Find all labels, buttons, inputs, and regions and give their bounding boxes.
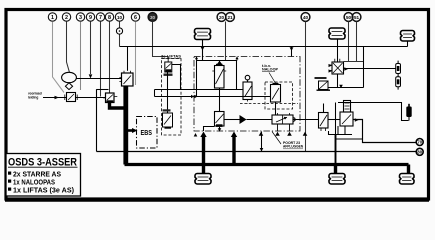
leader 2 [67, 22, 70, 73]
svg-text:6: 6 [134, 15, 137, 21]
NALOOP valve [271, 83, 281, 102]
wire suspension down to y88 [363, 47, 365, 88]
svg-text:AFPLUGGEN: AFPLUGGEN [283, 145, 304, 149]
coupling head ellipse [62, 72, 77, 82]
junction arrow cluster right [344, 67, 348, 71]
wire V1b bottom to drop1 [204, 127, 215, 132]
wire mid horizontal b [155, 96, 271, 98]
svg-text:3: 3 [79, 15, 82, 21]
junction arrow drop 1 [200, 132, 206, 138]
leader 8 [109, 22, 111, 93]
leader 7 [100, 22, 102, 97]
svg-text:20: 20 [219, 15, 225, 20]
svg-text:70: 70 [417, 140, 422, 145]
svg-text:21: 21 [227, 15, 233, 20]
park shunt valve [119, 71, 133, 86]
test coupling X-box [319, 81, 329, 90]
svg-text:40: 40 [303, 15, 309, 20]
leader 40 [305, 22, 307, 152]
wire port23 drop [261, 132, 263, 152]
thick drop 2 [232, 136, 235, 165]
lift control enclosure [336, 103, 409, 140]
drain diamond [65, 83, 72, 90]
wire lift valve to middle bellows [329, 126, 353, 135]
main brake delivery thick line [125, 163, 409, 166]
svg-text:8: 8 [108, 15, 111, 21]
svg-text:30: 30 [150, 15, 156, 20]
wire enclosure top to V1 [219, 61, 221, 66]
callout circles row [48, 13, 361, 22]
wire valve A right port [172, 65, 181, 90]
supply arrow wire [43, 96, 67, 100]
legend box [6, 154, 81, 197]
lift valve R with solenoid [340, 101, 353, 127]
svg-text:51: 51 [354, 15, 360, 20]
thick arrow into EBS [127, 128, 138, 133]
air bellows top middle [329, 28, 345, 39]
wire V1 down [219, 88, 221, 112]
NALOOP leader [269, 73, 276, 85]
port circle 80 [416, 148, 423, 155]
silencer [406, 104, 411, 121]
svg-text:10: 10 [117, 15, 123, 20]
wires below directional valve [278, 124, 290, 132]
leader 9 arrowhead [89, 74, 93, 78]
leader 9 [90, 22, 92, 75]
leader 3 [80, 22, 82, 91]
leader 50 [344, 22, 364, 62]
svg-text:NALOOP: NALOOP [262, 68, 279, 72]
wire mid horizontal a [155, 89, 244, 91]
air bellows top right [401, 30, 415, 41]
directional valve horizontal [272, 113, 295, 124]
wire cluster to test points [344, 68, 396, 70]
thick stub to middle bellows [334, 164, 337, 174]
POORT leader [272, 132, 281, 145]
svg-text:leiding: leiding [28, 96, 38, 100]
bellows bottom left [195, 174, 211, 185]
charging valve [103, 93, 117, 103]
wire filter to charging valve [76, 97, 106, 99]
wire valve L top stub [323, 104, 325, 113]
junction arrow into enclosure [191, 95, 198, 98]
valve B tiny label [163, 109, 171, 111]
wire pilot drop to knob valve [291, 47, 293, 57]
wire bellows top center [202, 40, 204, 61]
junction arrow drop 2 [231, 132, 237, 138]
wire V2 bottom dashed [247, 100, 249, 104]
wire cluster to xbox line [337, 74, 339, 88]
thick drop to left bellows [202, 136, 205, 175]
dashed pilot line [240, 103, 298, 105]
system dash-dot enclosure [194, 57, 300, 132]
lift valve L [319, 113, 329, 132]
check valve junction [224, 115, 272, 124]
svg-text:9: 9 [89, 15, 92, 21]
X-box tiny label [315, 77, 327, 79]
wire bellows top right [407, 41, 409, 47]
X-box base bar [317, 89, 331, 91]
air bellows top center [195, 29, 211, 40]
wire from suspension line to park valve [127, 47, 129, 71]
NALOOP dashed box [265, 82, 293, 109]
wire y88 [328, 87, 364, 89]
3e LIFTAS dashed box [162, 59, 182, 136]
valve A tiny label [164, 74, 173, 76]
leader 10 [119, 22, 121, 47]
junction arrow LIFTAS port [194, 133, 198, 137]
wire valve A to valve B [167, 72, 169, 113]
thick main pipe down [123, 86, 128, 165]
thick pipe charging valve down right [110, 103, 127, 109]
wire bellows top middle down to cluster [337, 39, 339, 62]
svg-text:OSDS 3-ASSER: OSDS 3-ASSER [8, 157, 77, 169]
bellows bottom right [400, 174, 415, 185]
line filter [65, 93, 77, 102]
leader lines [53, 22, 364, 152]
lift solenoid valve A [165, 62, 172, 72]
leader 1 [53, 22, 65, 93]
bellows bottom middle [329, 174, 345, 185]
svg-text:80: 80 [417, 150, 422, 155]
POORT label [283, 141, 304, 149]
pressure test point capsules [396, 61, 401, 90]
loop verticals [197, 61, 237, 97]
relay valve V1 [212, 64, 226, 88]
junction marks on leader40 and naloop drop [259, 132, 308, 136]
supply label [28, 92, 42, 100]
suspension line [120, 46, 408, 48]
border frame [5, 10, 429, 201]
valve V1b [215, 112, 225, 127]
leader 30 [153, 22, 169, 63]
svg-text:3e LIFTAS: 3e LIFTAS [161, 54, 182, 58]
junction arrow on sense line [260, 148, 264, 152]
svg-text:EBS: EBS [141, 128, 153, 137]
EBS module dashed box [137, 117, 158, 149]
leader 20/21 [225, 22, 227, 61]
test point circle on leader 10 [116, 28, 122, 34]
lift valve B [163, 113, 173, 129]
internal supply loop line [197, 60, 238, 62]
levelling valve cluster [330, 59, 344, 74]
wire ellipse to park valve [76, 78, 121, 80]
knob valve V2 [243, 75, 252, 99]
svg-text:1: 1 [51, 15, 54, 21]
port circle 70 [416, 139, 423, 146]
long sense line to port 80 [97, 151, 417, 153]
wire V1b to brake bus [219, 127, 221, 132]
junction arrow on y88 wire [339, 85, 343, 89]
svg-text:50: 50 [346, 15, 352, 20]
wire valve down to sense line [96, 89, 98, 151]
wire NALOOP valve down [275, 102, 277, 115]
svg-text:2: 2 [65, 15, 68, 21]
leader 51 [356, 22, 358, 62]
wires lift valves [293, 119, 319, 121]
svg-text:1x LIFTAS (3e AS): 1x LIFTAS (3e AS) [13, 185, 75, 194]
thick drop right end [407, 165, 410, 175]
leader 6 [135, 22, 137, 86]
NALOOP label [262, 64, 279, 72]
junction arrow valve R right [355, 118, 359, 122]
wire valve top-left jog [97, 89, 109, 91]
svg-text:7: 7 [99, 15, 102, 21]
